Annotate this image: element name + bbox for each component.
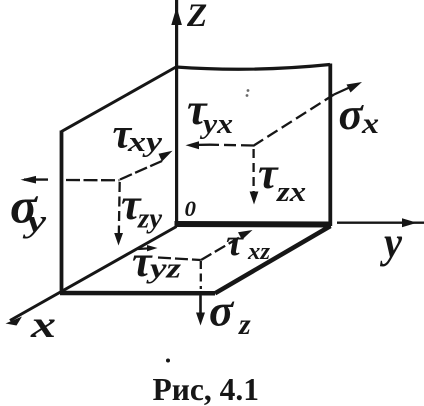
svg-text:zx: zx xyxy=(276,177,306,208)
svg-text:xу: xу xyxy=(127,127,163,158)
svg-text:xz: xz xyxy=(247,239,271,265)
svg-text:zу: zу xyxy=(137,204,163,235)
svg-text:τ: τ xyxy=(226,222,244,264)
svg-text:σ: σ xyxy=(339,89,365,139)
svg-text:у: у xyxy=(379,218,402,267)
svg-text:τ: τ xyxy=(258,149,279,198)
svg-text:уx: уx xyxy=(200,109,233,140)
svg-text:Z: Z xyxy=(186,0,207,34)
svg-text:x: x xyxy=(30,304,56,346)
svg-text:уz: уz xyxy=(146,254,181,285)
svg-text:x: x xyxy=(361,107,379,140)
svg-text:0: 0 xyxy=(185,196,197,221)
svg-text:z: z xyxy=(238,308,251,341)
svg-text:Рис, 4.1: Рис, 4.1 xyxy=(153,372,260,406)
svg-text:σ: σ xyxy=(209,286,235,336)
